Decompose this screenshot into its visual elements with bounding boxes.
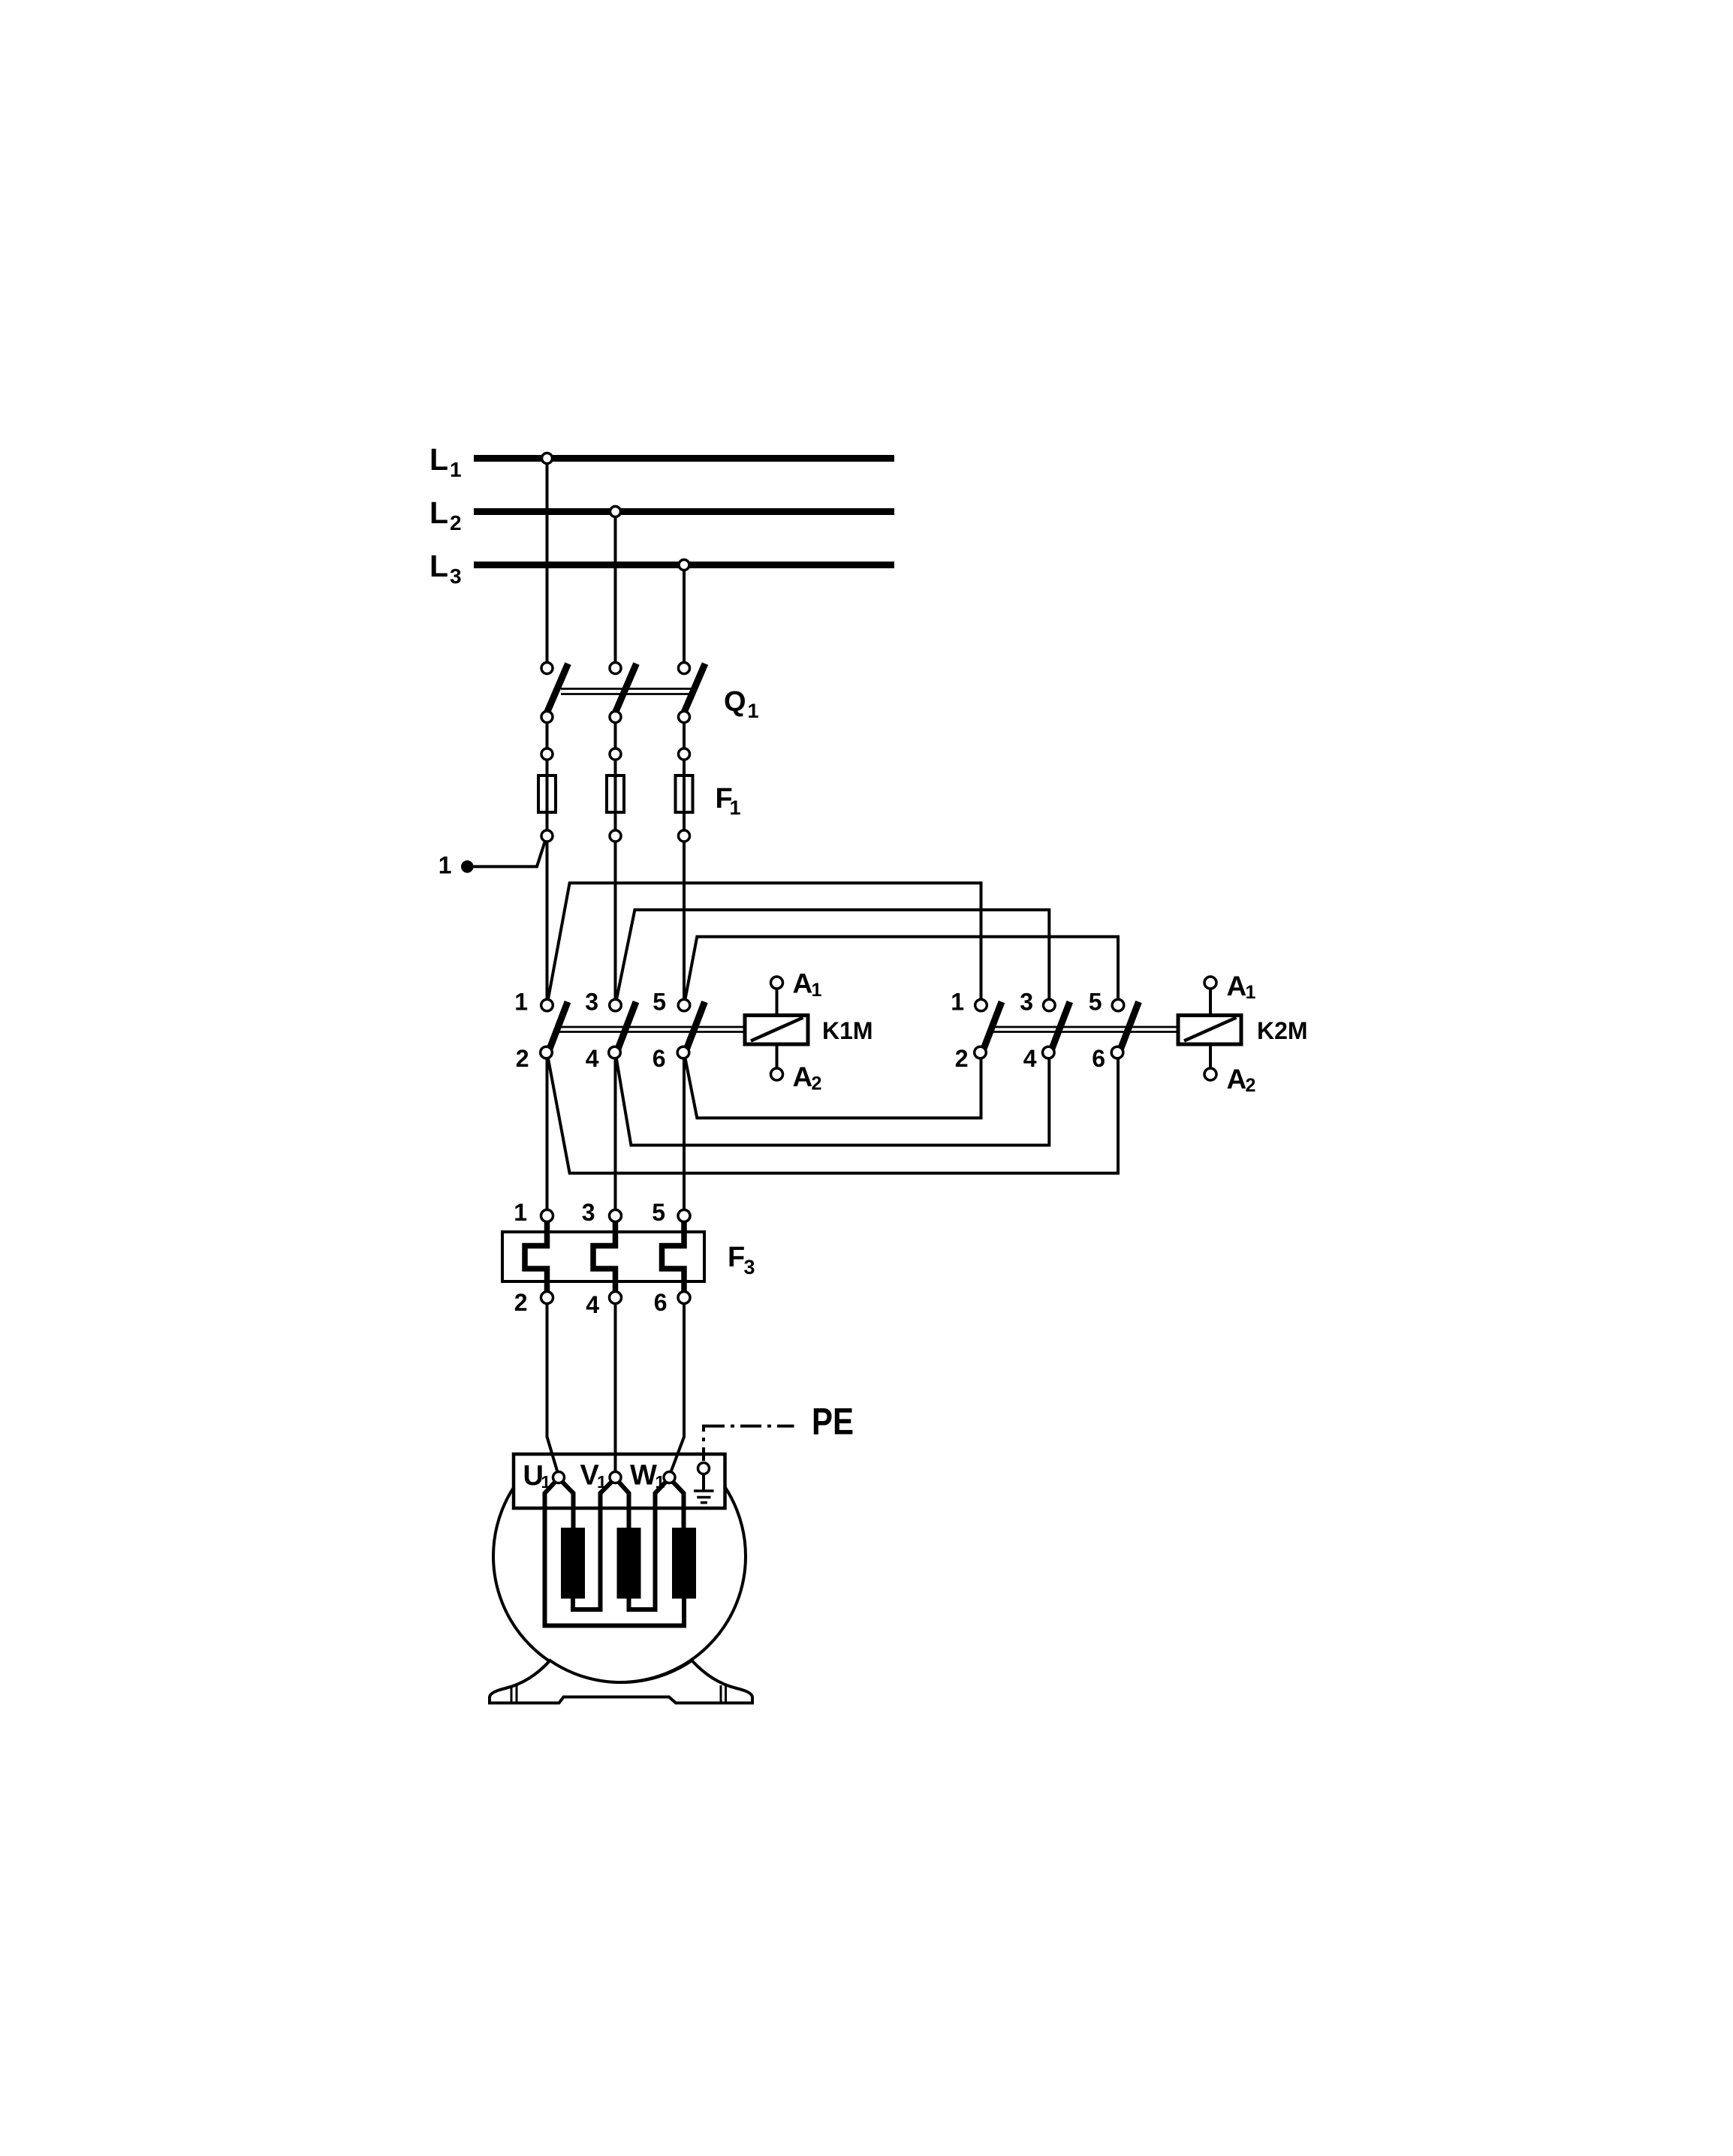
bus L2 bbox=[474, 508, 894, 515]
wire F1 to K1M phase 2 bbox=[614, 836, 617, 1006]
wire K1M to F3 phase 3 bbox=[683, 1052, 686, 1216]
contactor K1M blade pole 3 bbox=[683, 1002, 705, 1058]
K1M pin 4 terminal bbox=[609, 1046, 621, 1058]
K1M mechanical linkage bbox=[559, 1026, 745, 1028]
wire F1 to K1M phase 1 bbox=[546, 836, 549, 1006]
motor winding wire W1 left leg bbox=[629, 1478, 670, 1609]
wire L2 tap to Q1 pole 2 bbox=[614, 512, 617, 669]
svg-text:2: 2 bbox=[514, 1289, 528, 1316]
bus L1 bbox=[474, 455, 894, 462]
K1M pin 3 terminal bbox=[610, 999, 622, 1011]
svg-text:2: 2 bbox=[516, 1045, 529, 1072]
wire crossover K1M pin 2 to K2M pin 6 bbox=[547, 1052, 1119, 1173]
Q1 mechanical linkage bbox=[561, 688, 693, 690]
motor terminal U1 bbox=[553, 1472, 565, 1483]
Q1 pole 2 terminals bbox=[610, 663, 621, 674]
contactor K2M blade pole 3 bbox=[1117, 1002, 1139, 1058]
svg-text:W: W bbox=[630, 1460, 657, 1492]
svg-text:3: 3 bbox=[585, 989, 598, 1016]
svg-text:3: 3 bbox=[582, 1199, 595, 1226]
K1M pin 6 terminal bbox=[677, 1046, 689, 1058]
svg-text:2: 2 bbox=[812, 1073, 822, 1095]
contactor K1M blade pole 1 bbox=[547, 1002, 568, 1058]
PE dash-dot line horizontal bbox=[704, 1425, 794, 1428]
svg-text:3: 3 bbox=[450, 565, 462, 588]
F3 heater element phase 2 bbox=[593, 1221, 616, 1292]
svg-text:1: 1 bbox=[1246, 982, 1256, 1003]
svg-text:4: 4 bbox=[586, 1045, 599, 1072]
F3 pin 5 terminal bbox=[678, 1210, 690, 1222]
motor right foot tick marks bbox=[720, 1685, 722, 1703]
F3 pin 4 terminal bbox=[610, 1292, 622, 1304]
motor winding wire V1 left leg bbox=[573, 1478, 616, 1609]
svg-text:1: 1 bbox=[541, 1472, 551, 1492]
svg-text:1: 1 bbox=[748, 700, 759, 722]
motor winding wire U1 left leg and delta bus bbox=[545, 1478, 685, 1626]
fuse F1 element phase 3 bbox=[676, 775, 693, 812]
F3 pin 3 terminal bbox=[610, 1210, 622, 1222]
svg-text:PE: PE bbox=[812, 1401, 854, 1443]
node L1 tap bbox=[542, 453, 553, 464]
bus L3 bbox=[474, 562, 894, 568]
disconnect switch Q1 blade pole 1 bbox=[547, 664, 568, 712]
motor winding 1 bbox=[561, 1528, 585, 1599]
K1M coil terminal A1 bbox=[771, 977, 783, 989]
svg-text:A: A bbox=[1227, 971, 1247, 1001]
motor M1 body circle bbox=[493, 1430, 746, 1682]
wire K1M coil to A1 bbox=[776, 983, 779, 1016]
svg-text:1: 1 bbox=[730, 796, 741, 819]
motor terminal W1 bbox=[664, 1472, 675, 1483]
svg-text:L: L bbox=[429, 549, 448, 583]
svg-text:A: A bbox=[793, 1061, 813, 1092]
contactor K2M blade pole 2 bbox=[1048, 1002, 1070, 1058]
K2M coil terminal A1 bbox=[1204, 977, 1216, 989]
wire K1M coil to A2 bbox=[776, 1044, 779, 1074]
F1 phase 1 terminals bbox=[541, 748, 553, 760]
svg-text:1: 1 bbox=[450, 458, 462, 481]
motor winding wire U1 right leg bbox=[559, 1478, 574, 1531]
wire F3 to motor V1 bbox=[614, 1304, 617, 1477]
Q1 pole 1 terminals bbox=[541, 663, 553, 674]
F3 heater element phase 1 bbox=[525, 1221, 547, 1292]
F1 phase 2 terminals bbox=[610, 748, 621, 760]
svg-text:4: 4 bbox=[1023, 1045, 1037, 1072]
wire through fuse F1 phase 3 bbox=[683, 754, 686, 836]
svg-text:A: A bbox=[1227, 1064, 1247, 1095]
svg-text:5: 5 bbox=[652, 1199, 665, 1226]
wire L3 tap to Q1 pole 3 bbox=[683, 565, 686, 669]
F3 pin 2 terminal bbox=[541, 1292, 553, 1304]
wire crossover phase 2 to K2M pin 3 bbox=[616, 910, 1050, 1005]
fuse F1 element phase 2 bbox=[607, 775, 624, 812]
ground symbol at PE terminal bbox=[702, 1474, 705, 1490]
svg-text:3: 3 bbox=[1020, 989, 1033, 1016]
motor left foot tick marks bbox=[511, 1685, 513, 1703]
wire L1 tap to Q1 pole 1 bbox=[546, 459, 549, 669]
svg-text:1: 1 bbox=[656, 1472, 665, 1492]
svg-text:2: 2 bbox=[955, 1045, 969, 1072]
node L2 tap bbox=[610, 507, 621, 517]
svg-text:2: 2 bbox=[450, 511, 462, 534]
K2M coil box bbox=[1178, 1016, 1241, 1045]
node 1 wire bbox=[467, 839, 546, 866]
svg-text:2: 2 bbox=[1246, 1075, 1256, 1096]
K1M coil terminal A2 bbox=[771, 1068, 783, 1080]
K2M pin 6 terminal bbox=[1111, 1046, 1123, 1058]
svg-text:1: 1 bbox=[439, 852, 452, 879]
svg-text:6: 6 bbox=[653, 1045, 666, 1072]
K1M pin 2 terminal bbox=[541, 1046, 553, 1058]
fuse F1 element phase 1 bbox=[538, 775, 556, 812]
svg-text:A: A bbox=[793, 968, 813, 999]
svg-text:K2M: K2M bbox=[1257, 1017, 1308, 1044]
K1M pin 1 terminal bbox=[541, 999, 553, 1011]
wire K2M coil to A1 bbox=[1209, 983, 1212, 1016]
K2M pin 1 terminal bbox=[975, 999, 987, 1011]
K2M coil terminal A2 bbox=[1204, 1068, 1216, 1080]
svg-text:L: L bbox=[429, 495, 448, 530]
contactor K1M blade pole 2 bbox=[615, 1002, 637, 1058]
wire through fuse F1 phase 1 bbox=[546, 754, 549, 836]
node L3 tap bbox=[679, 560, 689, 571]
svg-text:1: 1 bbox=[514, 1199, 527, 1226]
svg-text:1: 1 bbox=[514, 989, 528, 1016]
svg-text:1: 1 bbox=[597, 1472, 607, 1492]
svg-text:Q: Q bbox=[724, 686, 746, 718]
wire F3 to motor W1 bbox=[670, 1302, 685, 1476]
wire through fuse F1 phase 2 bbox=[614, 754, 617, 836]
wire crossover phase 1 to K2M pin 1 bbox=[547, 883, 981, 1005]
wire crossover K1M pin 4 to K2M pin 4 bbox=[616, 1052, 1050, 1146]
node 1 dot bbox=[461, 860, 474, 873]
svg-text:5: 5 bbox=[1089, 989, 1102, 1016]
K1M pin 5 terminal bbox=[678, 999, 690, 1011]
wire Q1 to F1 phase 3 bbox=[683, 717, 686, 754]
F3 heater element phase 3 bbox=[662, 1221, 685, 1292]
K2M pin 4 terminal bbox=[1043, 1046, 1055, 1058]
motor terminal V1 bbox=[610, 1472, 621, 1483]
F3 pin 1 terminal bbox=[541, 1210, 553, 1222]
motor winding 3 bbox=[672, 1528, 696, 1599]
svg-text:K1M: K1M bbox=[822, 1017, 873, 1044]
K2M mechanical linkage bbox=[992, 1026, 1178, 1028]
wire F3 to motor U1 bbox=[547, 1303, 559, 1476]
wire F1 to K1M phase 3 bbox=[683, 836, 686, 1006]
svg-text:6: 6 bbox=[1092, 1045, 1105, 1072]
svg-text:L: L bbox=[429, 442, 448, 477]
svg-text:5: 5 bbox=[653, 989, 666, 1016]
svg-text:6: 6 bbox=[654, 1289, 668, 1316]
motor terminal box bbox=[514, 1454, 725, 1508]
wire crossover phase 3 to K2M pin 5 bbox=[684, 937, 1118, 1005]
wire K1M to F3 phase 2 bbox=[614, 1052, 617, 1216]
motor M1 feet and base bbox=[490, 1661, 752, 1703]
disconnect switch Q1 blade pole 3 bbox=[684, 664, 705, 712]
motor winding wire W1 right leg bbox=[670, 1478, 684, 1531]
wire Q1 to F1 phase 2 bbox=[614, 717, 617, 754]
Q1 pole 3 terminals bbox=[679, 663, 690, 674]
overload relay F3 box bbox=[502, 1232, 704, 1281]
wire crossover K1M pin 6 to K2M pin 2 bbox=[684, 1052, 981, 1118]
K2M pin 3 terminal bbox=[1044, 999, 1056, 1011]
motor winding 2 bbox=[617, 1528, 641, 1599]
svg-text:1: 1 bbox=[812, 980, 822, 1001]
F1 phase 3 terminals bbox=[679, 748, 690, 760]
K2M pin 5 terminal bbox=[1112, 999, 1124, 1011]
K1M coil box bbox=[745, 1016, 808, 1045]
disconnect switch Q1 blade pole 2 bbox=[616, 664, 637, 712]
svg-text:4: 4 bbox=[586, 1291, 599, 1318]
PE dash-dot line vertical bbox=[702, 1425, 705, 1461]
contactor K2M blade pole 1 bbox=[981, 1002, 1002, 1058]
K2M pin 2 terminal bbox=[975, 1046, 987, 1058]
svg-text:F: F bbox=[728, 1242, 745, 1273]
wire Q1 to F1 phase 1 bbox=[546, 717, 549, 754]
wire K2M coil to A2 bbox=[1209, 1044, 1212, 1074]
motor terminal PE bbox=[698, 1463, 710, 1474]
svg-text:1: 1 bbox=[951, 989, 964, 1016]
F3 pin 6 terminal bbox=[678, 1292, 690, 1304]
motor winding wire V1 right leg bbox=[616, 1478, 629, 1531]
svg-text:3: 3 bbox=[744, 1256, 755, 1278]
wire K1M to F3 phase 1 bbox=[546, 1052, 549, 1216]
